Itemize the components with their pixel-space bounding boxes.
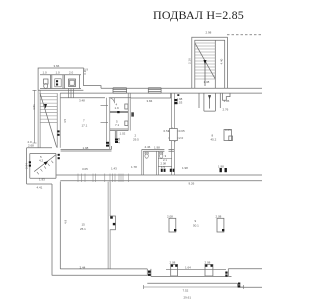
svg-text:2.08: 2.08 (167, 215, 173, 219)
svg-text:1.05: 1.05 (224, 99, 230, 103)
svg-text:2.98: 2.98 (206, 31, 212, 35)
svg-text:3.84: 3.84 (147, 99, 153, 103)
svg-text:1.98: 1.98 (182, 166, 188, 170)
svg-text:4.44: 4.44 (117, 137, 121, 143)
svg-text:2.0: 2.0 (69, 71, 74, 75)
svg-text:0.65: 0.65 (225, 128, 231, 132)
svg-text:4.40: 4.40 (220, 58, 224, 64)
svg-text:1.0: 1.0 (43, 71, 48, 75)
svg-text:0.9: 0.9 (83, 70, 87, 74)
svg-text:45.2: 45.2 (211, 138, 217, 142)
svg-text:2.08: 2.08 (170, 261, 176, 265)
svg-text:3.66: 3.66 (54, 64, 60, 68)
svg-text:2.16: 2.16 (188, 58, 192, 64)
svg-text:ПОДВАЛ Н=2.85: ПОДВАЛ Н=2.85 (153, 8, 244, 22)
svg-text:1.43: 1.43 (111, 167, 117, 171)
svg-text:2.08: 2.08 (216, 215, 222, 219)
svg-text:7.1: 7.1 (115, 123, 120, 127)
svg-text:1.64: 1.64 (185, 266, 191, 270)
svg-text:2.08: 2.08 (205, 261, 211, 265)
svg-text:4.81: 4.81 (32, 104, 36, 110)
svg-text:1.0: 1.0 (56, 71, 61, 75)
svg-text:2.0: 2.0 (179, 136, 184, 140)
svg-text:1.98: 1.98 (83, 146, 89, 150)
svg-text:7.52: 7.52 (183, 289, 189, 293)
svg-text:4.41: 4.41 (37, 186, 43, 190)
svg-text:25.1: 25.1 (80, 227, 86, 231)
svg-text:29.5: 29.5 (133, 138, 139, 142)
svg-text:1.5: 1.5 (161, 165, 165, 169)
svg-text:1.93: 1.93 (39, 178, 45, 182)
svg-text:9.26: 9.26 (189, 182, 195, 186)
svg-text:3.48: 3.48 (79, 99, 85, 103)
svg-text:2.68: 2.68 (28, 144, 34, 148)
svg-text:1.98: 1.98 (154, 145, 160, 149)
svg-text:3.44: 3.44 (80, 265, 86, 269)
svg-text:1.38: 1.38 (204, 80, 210, 84)
svg-text:3.05: 3.05 (82, 167, 88, 171)
svg-text:4.5: 4.5 (63, 118, 67, 123)
svg-text:2.0: 2.0 (28, 140, 33, 144)
svg-text:15: 15 (82, 223, 86, 227)
svg-text:17.1: 17.1 (82, 124, 88, 128)
svg-text:1.9: 1.9 (115, 106, 120, 110)
svg-text:0.65: 0.65 (179, 129, 185, 133)
svg-text:2.94: 2.94 (25, 163, 29, 169)
svg-text:0.51: 0.51 (164, 129, 170, 133)
svg-text:1.02: 1.02 (120, 132, 126, 136)
svg-text:2.76: 2.76 (223, 108, 229, 112)
svg-text:1.53: 1.53 (177, 101, 183, 105)
svg-text:1.78: 1.78 (131, 165, 137, 169)
svg-text:4.9: 4.9 (64, 219, 68, 224)
svg-text:1.98: 1.98 (218, 164, 224, 168)
svg-text:4.2: 4.2 (39, 158, 44, 162)
svg-text:50.1: 50.1 (193, 224, 199, 228)
svg-text:4.46: 4.46 (145, 145, 151, 149)
svg-text:29.61: 29.61 (184, 296, 192, 300)
